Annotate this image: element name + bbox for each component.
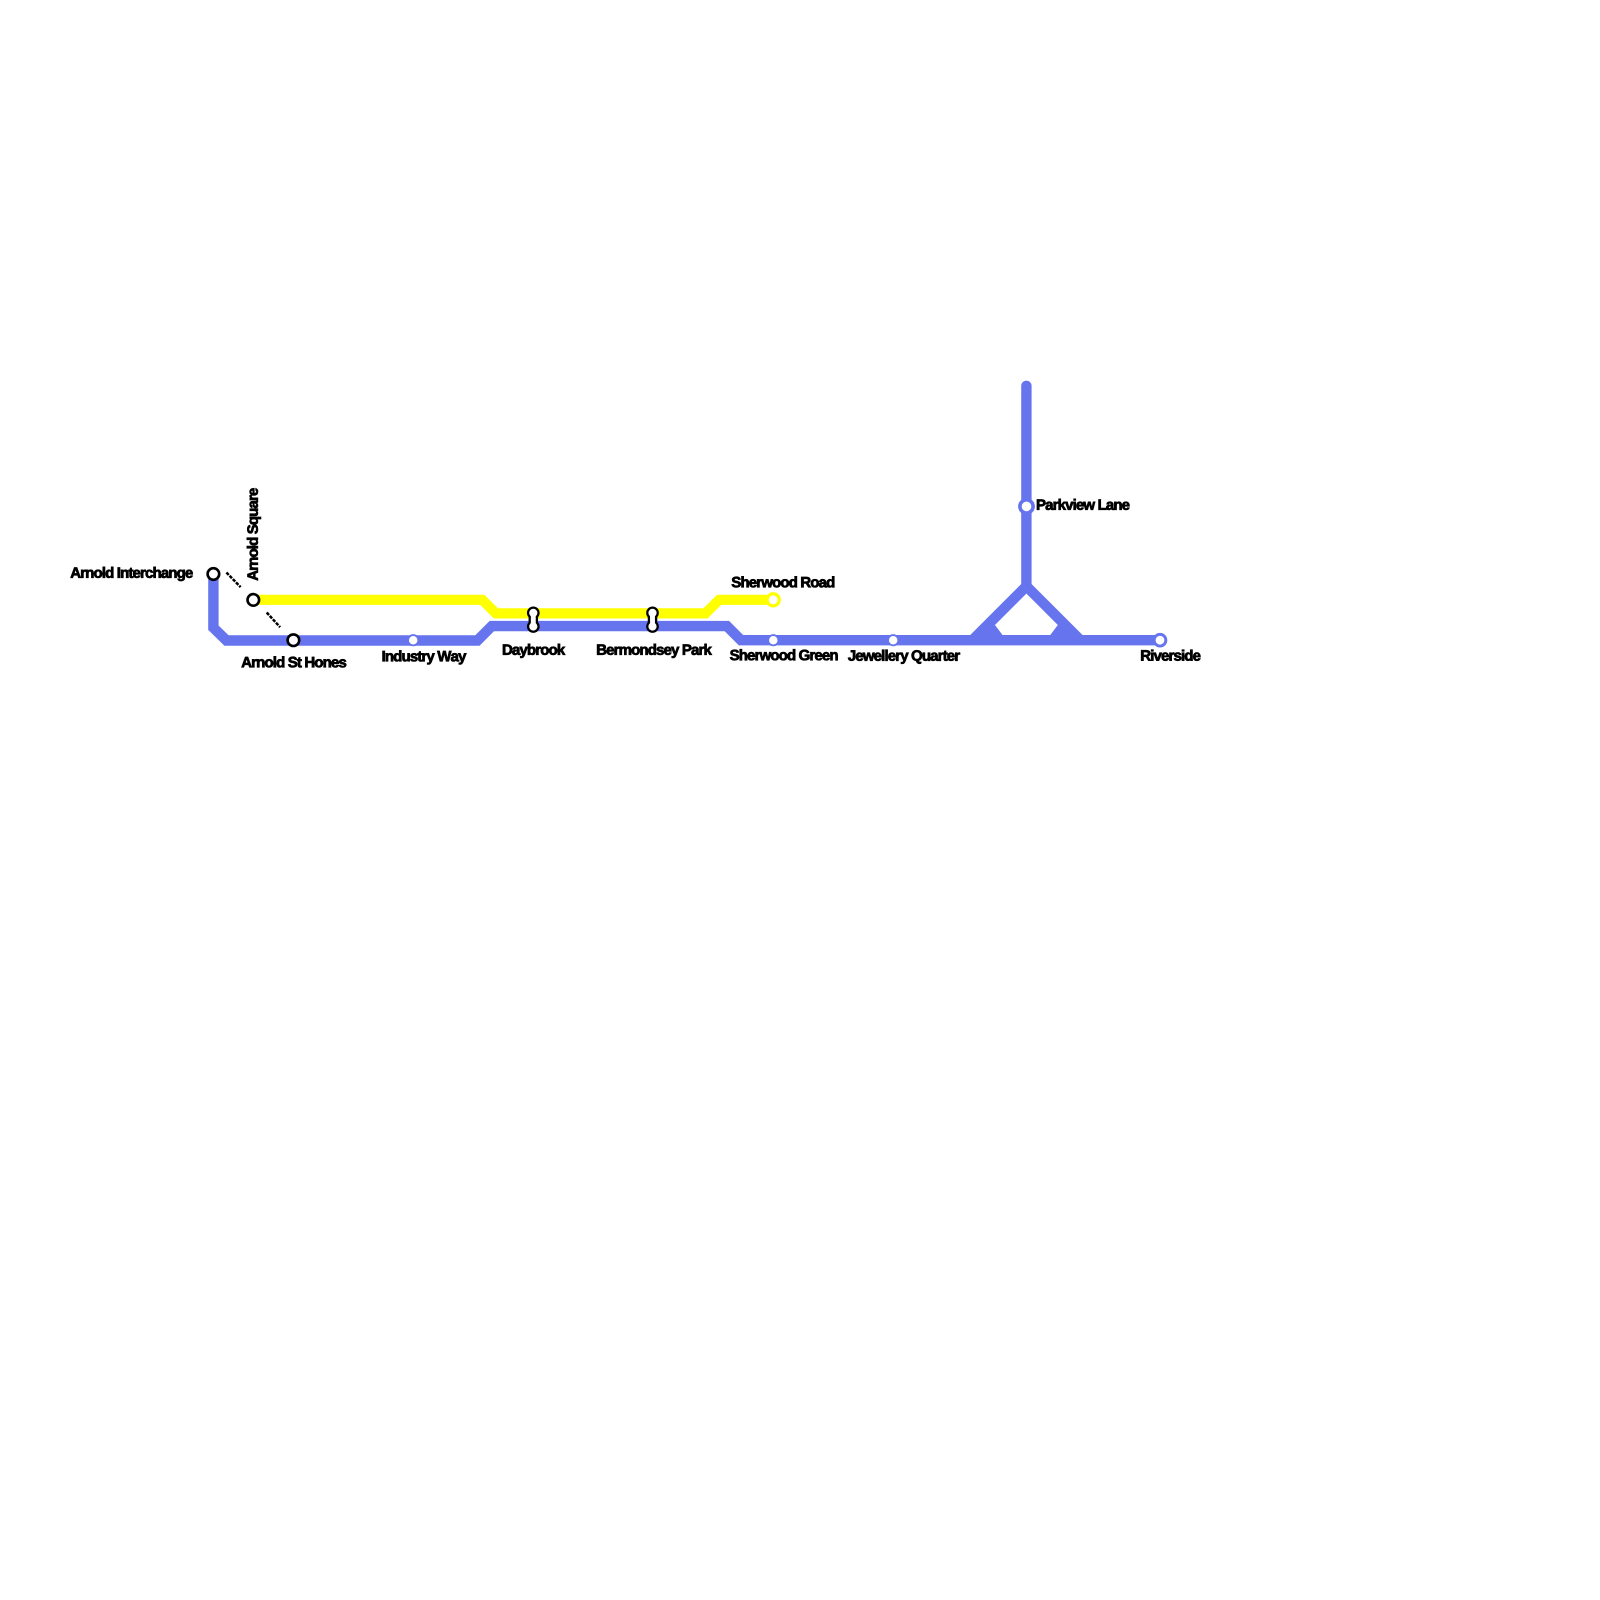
node Daybrook interchange <box>527 607 540 633</box>
node Parkview Lane <box>1020 500 1033 513</box>
wire blue branch vertical <box>1021 386 1031 586</box>
node Arnold Square <box>248 594 260 606</box>
node Riverside terminus <box>1154 634 1166 646</box>
label Sherwood Green <box>730 649 838 660</box>
wire dashed connector Arnold Square to Arnold St Hones <box>267 613 280 628</box>
node Industry Way <box>408 635 418 645</box>
label Arnold Interchange <box>71 567 193 581</box>
wire dashed connector Arnold Interchange to Arnold Square <box>226 573 240 588</box>
wire blue line main <box>213 574 1160 641</box>
label Parkview Lane <box>1037 499 1130 510</box>
node Arnold St Hones <box>288 634 300 646</box>
label Sherwood Road <box>732 576 835 587</box>
node Sherwood Green <box>768 635 778 645</box>
label Bermondsey Park <box>597 644 712 658</box>
wire blue triangle junction <box>972 586 1080 640</box>
label Industry Way <box>383 650 467 664</box>
node Bermondsey Park interchange <box>646 607 659 633</box>
label Daybrook <box>503 644 565 658</box>
node Sherwood Road terminus <box>767 594 779 606</box>
label Jewellery Quarter <box>848 650 960 664</box>
label Riverside <box>1141 650 1200 661</box>
wire junction wedge right <box>1049 625 1075 638</box>
label Arnold Square <box>247 488 261 580</box>
wire junction wedge left <box>979 625 1005 638</box>
wire yellow line <box>253 600 773 614</box>
node Jewellery Quarter <box>888 635 898 645</box>
node Arnold Interchange <box>208 568 220 580</box>
label Arnold St Hones <box>242 656 347 667</box>
